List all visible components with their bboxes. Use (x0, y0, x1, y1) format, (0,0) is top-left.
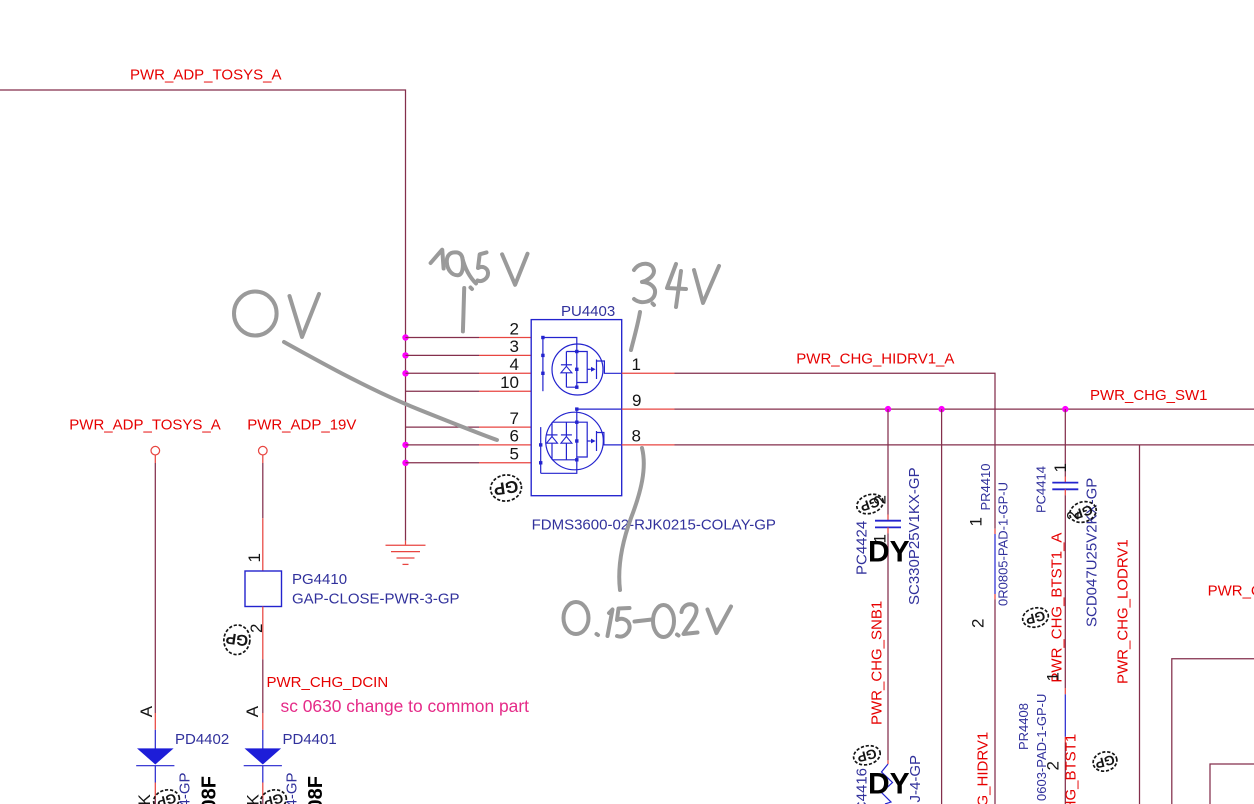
svg-text:K: K (244, 794, 263, 804)
junction pin5 wire (402, 460, 408, 466)
pin number 3 (510, 337, 519, 356)
PC4424 reference label (vertical) (854, 521, 871, 575)
junction SW1 mid branch (938, 406, 944, 412)
net label PWR_CHG_SW1 (1090, 387, 1208, 404)
PR4416 reference label (vertical, clipped) (854, 768, 871, 804)
transistor Q1 top MOSFET circle (552, 344, 603, 395)
svg-text:PWR_CHG_HIDRV1: PWR_CHG_HIDRV1 (975, 732, 992, 804)
PR4408 pin 1 label (1044, 672, 1063, 681)
svg-text:9: 9 (632, 391, 641, 410)
svg-text:A: A (137, 705, 156, 717)
PC4414 reference label (vertical) (1034, 466, 1049, 513)
handwriting 0.15-0.2V (564, 602, 732, 637)
svg-text:A: A (243, 705, 262, 717)
label A (anode) at PD4401 (243, 705, 262, 717)
net label PWR_CHG_HIDRV1 at bottom (vertical, clipped) (975, 732, 992, 804)
svg-text:PWR_ADP_19V: PWR_ADP_19V (247, 417, 356, 434)
stamp GP at PU4403 (489, 473, 523, 503)
svg-text:PWR_CHG_BTST1: PWR_CHG_BTST1 (1063, 734, 1080, 804)
wire pin2 (406, 337, 532, 339)
svg-text:PWR_CH: PWR_CH (1208, 583, 1254, 600)
svg-text:8: 8 (632, 427, 641, 446)
PR4408 value 0603-PAD-1-GP-U (vertical) (1034, 694, 1049, 801)
svg-text:GP: GP (492, 476, 519, 498)
svg-text:5: 5 (510, 445, 519, 464)
svg-text:PWR_CHG_HIDRV1_A: PWR_CHG_HIDRV1_A (796, 350, 954, 367)
handwriting OV (0V) (234, 292, 319, 338)
pin number 7 (510, 409, 519, 428)
wire from 19V terminal to PG4410 (262, 455, 264, 571)
wire pin9 PWR_CHG_SW1 (622, 408, 1254, 410)
wire SW1 branch at x=941.6 (941, 409, 943, 804)
wire pin8 PWR_CHG_LODRV1 (622, 444, 1254, 446)
wire pin10 (406, 390, 532, 392)
handwriting pointer from pin 8 to 0.15-0.2V (619, 448, 644, 590)
PD4401 reference label (283, 731, 337, 748)
stamp GP at PD4402 (151, 787, 181, 804)
PG4410 value label (292, 590, 460, 607)
PR4416 value label (vertical, clipped) (907, 755, 924, 803)
svg-text:PD4402: PD4402 (175, 731, 229, 748)
net label PWR_ADP_19V (247, 417, 356, 434)
stamp GP at PC4414 (1067, 498, 1099, 525)
net label PWR_CHG_SNB1 (vertical) (869, 601, 886, 725)
transistor Q-bottom internals: left bus pins 7,6,5 (541, 427, 577, 473)
label K (cathode) at PD4401 (244, 794, 263, 804)
transistor Q2 internals (547, 409, 622, 460)
svg-text:sc 0630 change to common part: sc 0630 change to common part (281, 696, 530, 716)
svg-text:PR4408: PR4408 (1016, 703, 1031, 750)
svg-text:K: K (135, 794, 154, 804)
wire pin1 PWR_CHG_HIDRV1_A (622, 373, 995, 529)
stuffing mark DY at PR4416 (868, 768, 910, 801)
PG4410 pin 2 label (247, 624, 266, 633)
pin number 8 (632, 427, 641, 446)
svg-text:3: 3 (510, 337, 519, 356)
PG4410 pin 1 label (245, 553, 264, 562)
PR4410 pin 1 label (967, 517, 986, 526)
svg-text:PWR_ADP_TOSYS_A: PWR_ADP_TOSYS_A (130, 67, 281, 84)
PR4410 value 0R0805-PAD-1-GP-U (vertical) (996, 482, 1011, 606)
PU4403 value label FDMS3600 (532, 517, 776, 534)
capacitor PC4424 (875, 521, 901, 528)
pin number 1 (632, 355, 641, 374)
net label PWR_CH (clipped at right edge) (1208, 583, 1254, 600)
PD4402 bold marking (vertical, clipped) (199, 776, 221, 804)
junction pin6 wire (402, 442, 408, 448)
pin number 9 (632, 391, 641, 410)
svg-text:SCD047U25V2KX-GP: SCD047U25V2KX-GP (1084, 478, 1101, 627)
capacitor PC4414 (1052, 483, 1078, 490)
svg-text:1: 1 (1044, 672, 1063, 681)
net label PWR_CHG_HIDRV1_A (796, 350, 954, 367)
wire BTST branch down from SW1 (1064, 409, 1066, 482)
pin number 2 (510, 319, 519, 338)
stuffing mark DY at PC4424 (868, 536, 910, 569)
net label PWR_CHG_BTST1 at bottom (vertical, clipped) (1063, 734, 1080, 804)
svg-text:FDMS3600-02-RJK0215-COLAY-GP: FDMS3600-02-RJK0215-COLAY-GP (532, 517, 776, 534)
svg-text:7: 7 (510, 409, 519, 428)
svg-text:1: 1 (967, 517, 986, 526)
gap pad PG4410 box (245, 571, 282, 607)
op PU4403 body box (531, 320, 622, 496)
transistor Q2 bottom MOSFET circle (546, 412, 604, 470)
net label PWR_ADP_TOSYS_A (top) (130, 67, 281, 84)
PC4414 value SCD047U25V2KX-GP (vertical) (1084, 478, 1101, 627)
svg-text:08F: 08F (199, 776, 221, 804)
stamp GP at PG4410 (222, 623, 252, 656)
svg-text:2: 2 (510, 319, 519, 338)
diode PD4401 (244, 730, 282, 804)
wire pin6 (406, 444, 532, 446)
svg-text:PWR_CHG_SNB1: PWR_CHG_SNB1 (869, 601, 886, 725)
svg-text:GAP-CLOSE-PWR-3-GP: GAP-CLOSE-PWR-3-GP (292, 590, 460, 607)
PD4402 value label (vertical, clipped) (177, 772, 194, 804)
PD4402 reference label (175, 731, 229, 748)
block outline corner (bottom right outer) (1172, 659, 1254, 804)
svg-text:PD4401: PD4401 (283, 731, 337, 748)
pin number 5 (510, 445, 519, 464)
transistor Q-top internals: left bus pins 2,3,4,10 (543, 338, 577, 392)
svg-text:PWR_ADP_TOSYS_A: PWR_ADP_TOSYS_A (69, 417, 220, 434)
svg-text:10: 10 (500, 373, 519, 392)
block outline corner (bottom right inner) (1210, 764, 1254, 804)
PD4401 bold marking (vertical, clipped) (305, 776, 327, 804)
svg-text:0603-PAD-1-GP-U: 0603-PAD-1-GP-U (1034, 694, 1049, 801)
label A (anode) at PD4402 (137, 705, 156, 717)
handwriting 3.4V (631, 264, 719, 350)
svg-text:DY: DY (868, 536, 910, 569)
wire pin3 (406, 354, 532, 356)
handwriting 19.5V (431, 250, 528, 332)
svg-text:0R0805-PAD-1-GP-U: 0R0805-PAD-1-GP-U (996, 482, 1011, 606)
junction pin3 wire (402, 352, 408, 358)
svg-text:1: 1 (1051, 463, 1070, 472)
resistor PR4408 0R pad (1064, 688, 1066, 804)
transistor Q1 internals (561, 352, 622, 388)
svg-text:6: 6 (510, 427, 519, 446)
PD4401 value label (vertical, clipped) (284, 772, 301, 804)
wire pin4 (406, 372, 532, 374)
terminal PWR_ADP_TOSYS_A (left) (151, 446, 160, 455)
handwriting pointer line from 0V to pin 6 (284, 342, 497, 440)
net label PWR_ADP_TOSYS_A (left) (69, 417, 220, 434)
stamp GP at PC4424 (854, 491, 885, 517)
pin number 10 (500, 373, 519, 392)
svg-text:GP: GP (225, 629, 250, 649)
svg-text:1: 1 (632, 355, 641, 374)
wire PWR_CHG_SNB1 below cap (887, 527, 889, 764)
label K (cathode) at PD4402 (135, 794, 154, 804)
svg-text:1: 1 (245, 553, 264, 562)
svg-text:PG4410: PG4410 (292, 571, 347, 588)
junction SW1/SNB1 branch (885, 406, 891, 412)
wire pin5 (406, 462, 532, 464)
resistor PR4416 zigzag (882, 764, 893, 804)
PR4408 reference label (vertical) (1016, 703, 1031, 750)
stamp GP at PR4416 (852, 743, 883, 768)
svg-text:PC4414: PC4414 (1034, 466, 1049, 513)
stamp GP at PR4408 (1091, 749, 1119, 773)
net label PWR_CHG_LODRV1 (vertical) (1115, 539, 1132, 684)
svg-text:4: 4 (510, 355, 519, 374)
wire from left terminal to diode PD4402 (154, 455, 156, 730)
svg-text:08F: 08F (305, 776, 327, 804)
svg-text:2: 2 (969, 619, 988, 628)
svg-text:PU4403: PU4403 (561, 303, 615, 320)
stamp GP at PR4410 (1021, 605, 1051, 630)
svg-text:PWR_CHG_DCIN: PWR_CHG_DCIN (267, 674, 389, 691)
svg-text:PR4410: PR4410 (978, 464, 993, 511)
svg-text:PWR_CHG_LODRV1: PWR_CHG_LODRV1 (1115, 539, 1132, 684)
terminal PWR_ADP_19V (259, 446, 268, 455)
net label PWR_CHG_DCIN (267, 674, 389, 691)
wire PWR_CHG_DCIN (262, 607, 264, 730)
note: sc 0630 change to common part (281, 696, 530, 716)
junction pin2 wire (402, 334, 408, 340)
junction pin4 wire (402, 370, 408, 376)
PC4424 pin 1 label (871, 534, 890, 543)
diode PD4402 (136, 730, 174, 804)
PC4424 value SC330P25V1KX-GP (vertical) (906, 467, 923, 605)
svg-text:2: 2 (1044, 761, 1063, 770)
pin number 6 (510, 427, 519, 446)
svg-text:GP: GP (155, 790, 178, 804)
net label PWR_CHG_BTST1_A (vertical) (1049, 533, 1066, 683)
stamp GP at PD4401 (258, 787, 288, 804)
PC4414 pin 2 label (1064, 511, 1083, 520)
wire PWR_ADP_TOSYS_A from left edge, down to ground (0, 90, 406, 541)
wire SNB1 branch down (887, 409, 889, 520)
wire PWR_CHG_BTST1_A below cap (1064, 489, 1066, 688)
wire pin7 (406, 426, 532, 428)
pin number 4 (510, 355, 519, 374)
svg-text:PWR_CHG_BTST1_A: PWR_CHG_BTST1_A (1049, 533, 1066, 683)
PC4424 pin 2 label (871, 495, 890, 504)
PR4408 pin 2 label (1044, 761, 1063, 770)
resistor PR4410 0R pad: red stubs and blue body on HIDRV wire (994, 529, 996, 804)
svg-text:DY: DY (868, 768, 910, 801)
svg-text:GP: GP (1094, 752, 1117, 771)
svg-text:GP: GP (262, 790, 285, 804)
svg-text:PWR_CHG_SW1: PWR_CHG_SW1 (1090, 387, 1208, 404)
ground (386, 541, 426, 565)
junction SW1/BTST branch (1062, 406, 1068, 412)
wire LODRV1 drop (1139, 445, 1141, 804)
PG4410 reference label (292, 571, 347, 588)
PR4410 reference label (vertical) (978, 464, 993, 511)
PU4403 reference label (561, 303, 615, 320)
PR4410 pin 2 label (969, 619, 988, 628)
PC4414 pin 1 label (1051, 463, 1070, 472)
